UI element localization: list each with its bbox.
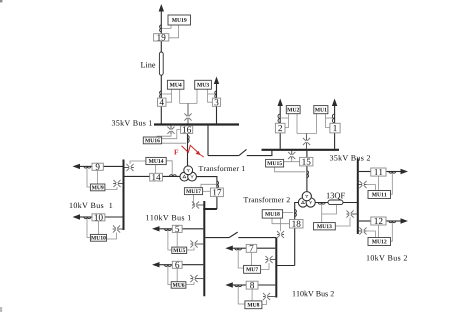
corner mark bottom-left [0, 307, 2, 312]
wire PT13 to MU13 [335, 217, 350, 226]
arrow incoming line [159, 4, 164, 12]
wire PT15 stem [291, 159, 293, 162]
PT bus1 (between MU4/MU3) [184, 113, 191, 120]
breaker 18 [290, 220, 304, 229]
wire Line reactor to breaker4 [160, 75, 162, 98]
bus 110kV Bus 1 [203, 201, 205, 296]
node PT16 stub [170, 125, 172, 134]
node PT-B stub on bus2 [306, 134, 308, 149]
wire feeder10 arrow to breaker10 [80, 216, 93, 218]
breaker 9 [92, 163, 103, 170]
wire feeder7 arrow to breaker7 [232, 247, 246, 249]
corner mark top-left [0, 0, 2, 2]
wire CT13 to MU13 [321, 204, 323, 223]
merging unit MU3 [195, 80, 212, 89]
wire CT18 to MU18 [283, 212, 293, 214]
arrow feeder 11 [401, 169, 409, 174]
bus 35kV Bus 2 [262, 149, 340, 151]
wire transformer T2 MV to 10kV bus2 [315, 202, 358, 204]
wire breaker16 to MU16 [162, 130, 181, 139]
wire CT19 to MU19 [162, 25, 171, 28]
wire breaker11 to CT11 [386, 171, 401, 173]
wire PT16 to MU16 [157, 134, 171, 137]
PT MU6 [190, 275, 197, 282]
wire feeder6 arrow to breaker6 [159, 264, 172, 266]
wire bus1 to breaker16 [187, 125, 189, 127]
breaker 11 [371, 168, 386, 176]
wire breaker7 to 110kV bus2 [257, 247, 276, 249]
wire breaker19 to Line reactor [160, 41, 162, 53]
arrow feeder 9 [73, 164, 81, 169]
wire 110kV bus-tie right [238, 237, 276, 239]
wire PT10 to MU10 [107, 232, 117, 239]
node PT9 stub [113, 183, 122, 185]
CT breaker18 [295, 210, 297, 217]
wire CT8 to MU8 [238, 287, 245, 304]
wire MU2-MU1 connector [297, 133, 317, 135]
wire breaker 13QF to MU13 [322, 205, 337, 214]
wire 10kV bus1 to breaker14 [124, 175, 150, 177]
label 10kV Bus 1 [70, 202, 113, 208]
PT MU16 [167, 127, 174, 134]
wire MU17 to breaker17 [203, 190, 211, 192]
merging unit MU4 [167, 80, 184, 89]
arrow feeder 12 [401, 218, 409, 223]
merging unit MU1 [314, 106, 328, 114]
wire CT3 to MU3 [208, 93, 216, 95]
wire breaker18 branch to 110kV bus2 [276, 265, 294, 267]
node PT11 stub [357, 184, 367, 186]
label 110kV Bus 1 [146, 215, 191, 221]
wire breaker10 to 10kV bus1 [105, 216, 123, 218]
breaker 8 [246, 281, 258, 289]
node PT14 stub [125, 167, 134, 169]
merging unit MU2 [286, 106, 300, 114]
wire breaker4 to 35kV bus1 [160, 106, 162, 123]
wire breaker18 down [294, 228, 296, 266]
wire CT17 to MU17 [201, 184, 216, 187]
wire PT5 to MU5 [187, 247, 194, 250]
merging unit MU8 [245, 301, 262, 309]
PT MU15 [288, 152, 295, 159]
CT on incoming line (MU19) [160, 25, 162, 32]
CT feeder 10 [84, 217, 91, 219]
CT feeder 11 [389, 172, 396, 174]
transformer T1 [180, 166, 197, 181]
Line reactor capsule [159, 52, 163, 75]
wire PT7 to MU7 [261, 263, 269, 270]
node PT-A stub on bus1 [187, 104, 189, 124]
PT MU12 [359, 227, 366, 234]
wire feeder5 arrow to breaker5 [159, 228, 172, 230]
node PT18 stub [277, 234, 284, 236]
breaker 16 [181, 126, 193, 134]
label 110kV Bus 2 [293, 291, 334, 297]
wire feeder3 above breaker [216, 84, 218, 99]
wire CT7 to MU7 [238, 250, 243, 268]
label Line [141, 62, 156, 68]
CT 13QF (MU13) [318, 203, 325, 205]
wire breaker6 to MU6 [176, 268, 178, 281]
transformer T2 [298, 192, 315, 208]
bus 10kV Bus 2 [357, 159, 359, 235]
arrow feeder 3 [214, 77, 219, 85]
label 10kV Bus 2 [367, 255, 407, 261]
wire MU1 to connector [316, 114, 318, 134]
wire feeder8 arrow to breaker8 [232, 284, 246, 286]
label Transformer 2 [244, 197, 290, 202]
wire CT1 to MU1 [326, 117, 334, 119]
merging unit MU6 [171, 282, 186, 289]
breaker 19 [154, 34, 169, 41]
node PT10 stub [113, 228, 123, 230]
fault lightning arrow [182, 145, 204, 157]
node PT12 stub [357, 230, 367, 232]
breaker 13QF capsule [328, 200, 343, 205]
merging unit MU15 [266, 159, 284, 167]
wire PT12 to MU12 [366, 231, 375, 238]
CT feeder 12 [389, 221, 396, 223]
CT feeder 7 [235, 248, 242, 250]
wire breaker9 to 10kV bus1 [103, 165, 122, 167]
breaker 17 [210, 188, 223, 197]
breaker 2 [275, 123, 285, 133]
merging unit MU19 [168, 15, 191, 25]
bus 110kV Bus 2 [275, 238, 277, 298]
CT feeder 2 [278, 114, 280, 123]
wire MU15 to breaker15 [284, 161, 300, 163]
wire breaker11 to MU11 [377, 176, 379, 190]
merging unit MU9 [90, 184, 105, 191]
bus 35kV Bus 1 [154, 123, 239, 125]
CT transformer T2 HV (MU15) [307, 171, 309, 178]
arrow feeder 7 [225, 246, 233, 251]
PT bus2 (between MU2/MU1) [303, 138, 310, 145]
label 35kV Bus 1 [112, 120, 152, 126]
node PT17 stub [192, 204, 204, 206]
wire MU17 to PT17 [193, 195, 195, 205]
wire PT6 to MU6 [186, 282, 194, 285]
wire PT14 to MU14 [130, 161, 146, 164]
wire MU4 to bus1 PT drop [179, 89, 181, 103]
merging unit MU16 [143, 137, 161, 144]
bus 10kV Bus 1 [123, 160, 125, 231]
merging unit MU11 [368, 191, 391, 199]
arrow feeder 1 [332, 99, 337, 107]
PT MU11 [359, 181, 366, 188]
wire CT16 to MU16 [162, 142, 186, 144]
CT feeder 3 [215, 91, 217, 98]
wire breaker2 to 35kV bus2 [279, 133, 281, 149]
wire 110kV bus-tie left [205, 237, 229, 239]
wire feeder9 arrow to breaker9 [80, 165, 93, 167]
wire breaker1 to 35kV bus2 [334, 133, 336, 149]
breaker 14 [150, 173, 163, 181]
CT feeder 6 [165, 265, 172, 267]
wire 10kV bus2 to breaker11 [359, 171, 371, 173]
wire MU14 to CT14 [166, 161, 172, 176]
wire MU3 to connector [196, 89, 198, 103]
breaker 7 [246, 244, 257, 252]
wire PT8 to MU8 [262, 300, 267, 305]
CT feeder 8 [235, 285, 242, 287]
wire CT6 to MU6 [168, 267, 171, 285]
PT MU14 [126, 164, 133, 171]
breaker 12 [371, 217, 386, 225]
wire breaker6 to 110kV bus1 [182, 264, 203, 266]
wire breaker3 to MU3 [208, 89, 213, 102]
wire breaker9 to MU9 [97, 170, 99, 184]
wire feeder1 above breaker [334, 106, 336, 124]
wire breaker14 to transformer T1 LV [162, 175, 181, 177]
breaker 4 [158, 98, 167, 106]
CT feeder 9 [84, 166, 91, 168]
wire breaker4 to MU4 [166, 89, 172, 102]
arrow feeder 8 [225, 282, 233, 287]
wire breaker7 to MU7 [251, 252, 253, 265]
PT MU7 [265, 256, 272, 263]
CT breaker17 [217, 181, 219, 188]
wire PT11 to MU11 [366, 185, 375, 191]
wire MU4-MU3 connector [180, 103, 197, 105]
wire CT5 to MU5 [168, 231, 172, 250]
node PT5 stub [191, 243, 204, 245]
wire MU18 to breaker18 [272, 218, 290, 224]
PT MU17 [192, 201, 199, 208]
wire breaker12 to MU12 [377, 225, 379, 238]
wire 35kV bus-tie right [247, 151, 272, 156]
merging unit MU17 [184, 188, 202, 195]
merging unit MU7 [244, 265, 261, 273]
wire breaker3 to 35kV bus1 [216, 106, 218, 123]
PT MU9 [113, 180, 120, 187]
label Transformer 1 [199, 166, 245, 171]
arrow feeder 5 [152, 226, 160, 231]
breaker 10 [92, 214, 105, 221]
wire breaker8 to 110kV bus2 [258, 284, 275, 286]
wire 35kV bus-tie drop [207, 126, 209, 156]
wire CT4 to MU4 [162, 93, 171, 95]
wire 10kV bus2 to breaker12 [359, 220, 371, 222]
breaker 6 [172, 261, 182, 268]
merging unit MU12 [368, 238, 391, 246]
label 35kV Bus 2 [330, 155, 370, 161]
wire incoming line top [160, 11, 162, 34]
wire breaker10 to MU10 [97, 221, 99, 235]
wire CT12 to MU12 [391, 223, 393, 242]
arrow feeder 6 [152, 262, 160, 267]
node PT6 stub [191, 278, 204, 280]
node PT7 stub [266, 259, 276, 261]
PT MU18 [277, 231, 284, 238]
merging unit MU13 [314, 223, 336, 230]
arrow feeder 2 [278, 99, 283, 107]
wire breaker17 to 110kV bus1 [216, 197, 218, 209]
wire CT9 to MU9 [87, 168, 90, 187]
breaker 3 [212, 98, 220, 106]
label fault F [174, 150, 178, 155]
wire breaker2 to MU2 [285, 114, 289, 128]
PT MU10 [113, 225, 120, 232]
wire breaker15 to transformer T2 [306, 166, 308, 193]
wire CT11 to MU11 [391, 173, 393, 194]
CT feeder 1 [332, 114, 334, 123]
node PT13 stub [347, 213, 357, 215]
CT feeder 5 [165, 229, 172, 231]
junction 110kV bus1 corner [203, 208, 217, 210]
node PT8 stub [263, 296, 275, 298]
wire MU18 to PT18 [280, 218, 282, 231]
wire 35kV bus-tie left [208, 155, 239, 157]
PT MU13 [346, 210, 353, 217]
wire transformer T1 MV to vertical [196, 177, 217, 188]
wire feeder2 above breaker [279, 106, 281, 124]
wire breaker16 to transformer T1 [187, 133, 189, 166]
merging unit MU10 [90, 234, 106, 241]
wire CT2 to MU2 [281, 117, 288, 119]
breaker 1 [330, 123, 340, 133]
PT MU5 [190, 240, 197, 247]
merging unit MU14 [146, 157, 166, 164]
wire breaker5 to MU5 [176, 232, 178, 247]
merging unit MU18 [262, 210, 282, 218]
wire transformer T2 LV left [295, 203, 299, 220]
wire CT10 to MU10 [87, 219, 90, 238]
wire 35kV bus2 to breaker15 [306, 151, 308, 158]
wire breaker5 to 110kV bus1 [182, 228, 203, 230]
disconnector blade 35kV tie [239, 149, 247, 155]
wire breaker19 to MU19 [169, 25, 179, 38]
label 13QF [327, 193, 345, 200]
breaker 5 [172, 225, 182, 232]
PT MU8 [263, 293, 270, 300]
wire breaker1 to MU1 [326, 114, 330, 128]
node PT15 stub [291, 151, 293, 159]
CT transformer T1 LV (MU14) [170, 175, 177, 177]
breaker 15 [300, 157, 313, 166]
CT feeder 4 [160, 91, 162, 98]
arrow feeder 10 [73, 214, 81, 219]
wire MU14 to breaker14 [155, 165, 157, 174]
wire breaker12 to CT12 [386, 220, 401, 222]
wire breaker8 to MU8 [251, 289, 253, 301]
merging unit MU5 [172, 247, 187, 253]
CT transformer T1 HV (MU16) [188, 136, 190, 143]
wire MU2 to bus2 PT drop [296, 114, 298, 134]
disconnector blade 110kV tie [229, 232, 238, 238]
wire MU15 to CT15 [275, 167, 306, 172]
wire PT9 to MU9 [105, 187, 117, 190]
